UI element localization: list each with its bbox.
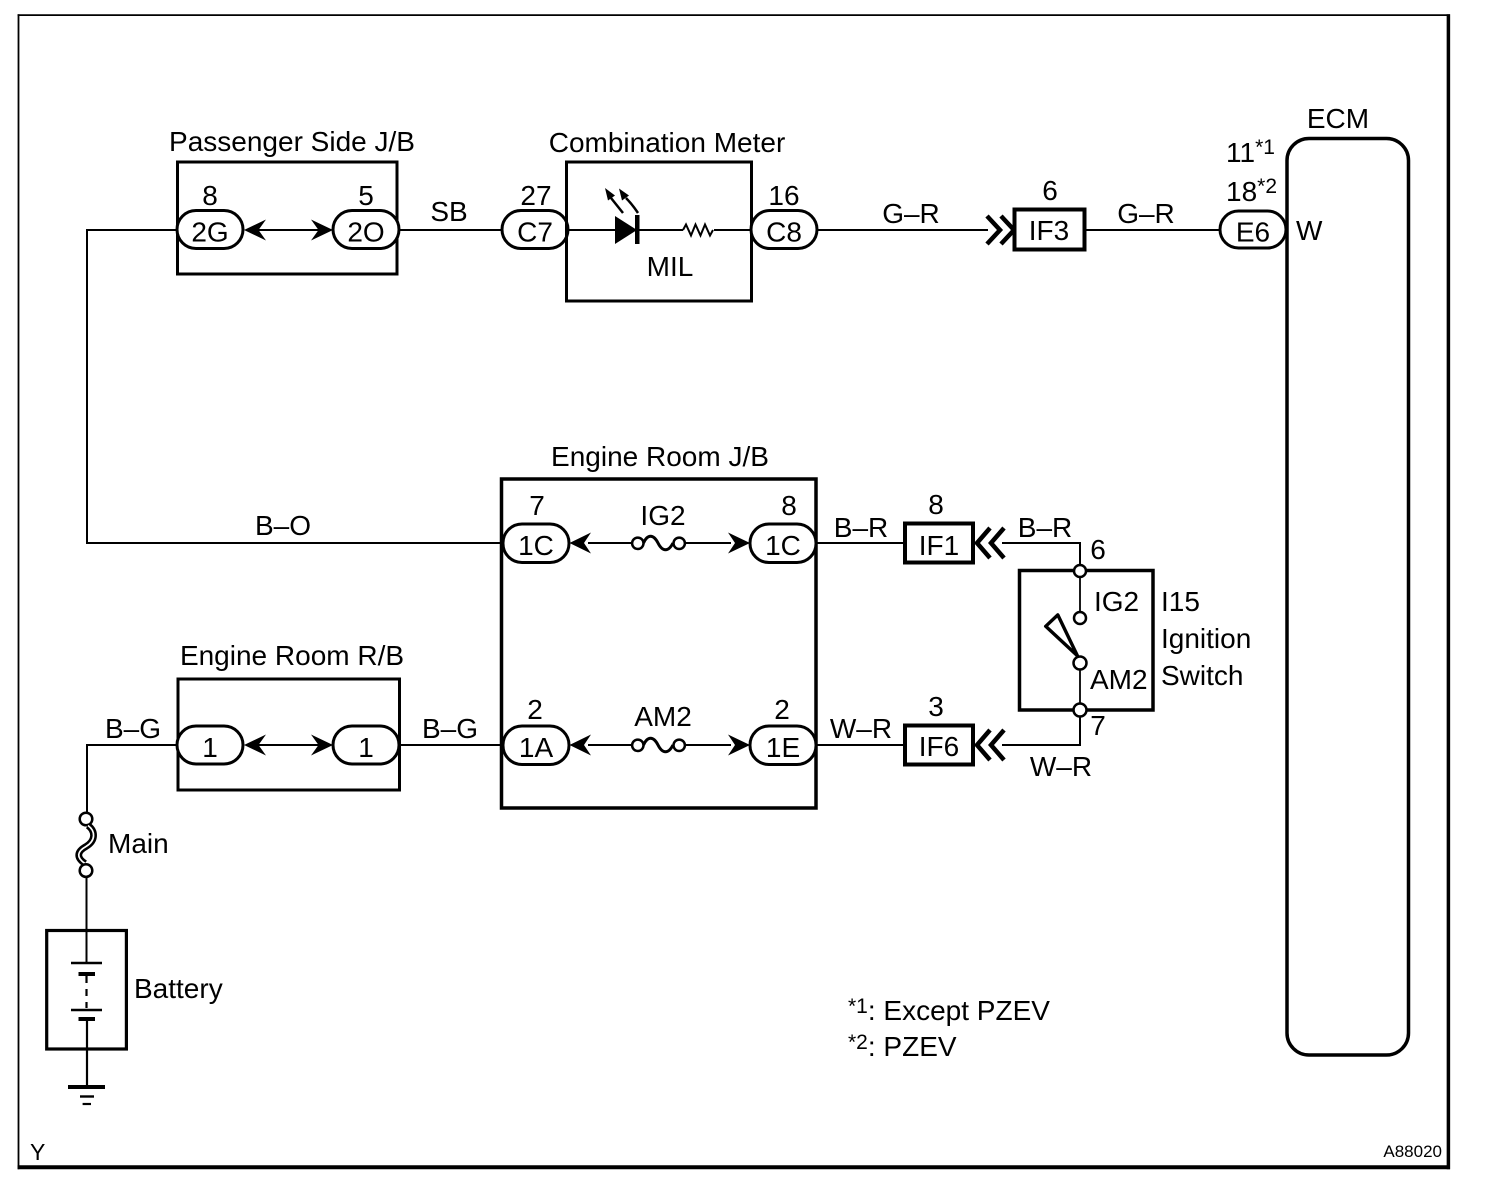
svg-text:AM2: AM2 <box>1090 664 1148 695</box>
border frame left <box>18 14 20 1169</box>
wire 1C to IF1 <box>816 542 907 544</box>
wire chevrons to terminal 7 <box>1002 717 1080 745</box>
connector C8 <box>751 211 817 249</box>
junction IF1 <box>905 524 973 563</box>
svg-text:6: 6 <box>1090 534 1106 565</box>
svg-text:Ignition: Ignition <box>1161 623 1251 654</box>
wire C8 to splice <box>817 229 988 231</box>
svg-text:6: 6 <box>1042 175 1058 206</box>
wire battery to ground <box>86 1021 88 1086</box>
Engine Room R/B box <box>178 679 400 790</box>
svg-text:Engine Room J/B: Engine Room J/B <box>551 441 769 472</box>
svg-text:G–R: G–R <box>1117 198 1175 229</box>
svg-text:Combination Meter: Combination Meter <box>549 127 786 158</box>
svg-text:Battery: Battery <box>134 973 223 1004</box>
wire R/B to 1A <box>399 744 504 746</box>
wire B-G to R/B <box>87 744 180 746</box>
svg-text:A88020: A88020 <box>1383 1142 1442 1161</box>
svg-text:IF3: IF3 <box>1029 215 1069 246</box>
svg-text:Switch: Switch <box>1161 660 1243 691</box>
svg-text:8: 8 <box>928 489 944 520</box>
fusible link Main <box>79 813 94 877</box>
LED emission arrow 2 head <box>619 189 629 201</box>
svg-text:2: 2 <box>774 694 790 725</box>
wire 2O to C7 <box>399 229 504 231</box>
contact IG2 circle <box>1074 612 1086 624</box>
svg-text:G–R: G–R <box>882 198 940 229</box>
wire C7 to LED <box>566 229 616 231</box>
border frame right <box>1447 14 1451 1169</box>
connector 1A <box>503 726 569 765</box>
battery plate long bottom <box>71 1009 102 1011</box>
svg-text:2: 2 <box>527 694 543 725</box>
LED emission arrow 2 shaft <box>626 198 638 213</box>
LED emission arrow 1 shaft <box>611 198 623 213</box>
svg-text:IF6: IF6 <box>919 731 959 762</box>
connector C7 <box>502 211 568 249</box>
border frame top <box>18 14 1450 16</box>
wire resistor to C8 <box>714 229 752 231</box>
terminal 7 circle <box>1074 704 1087 717</box>
splice chevron 2 toward IF1 <box>991 528 1004 558</box>
ground symbol <box>68 1087 105 1104</box>
svg-text:C8: C8 <box>766 217 802 248</box>
svg-text:W–R: W–R <box>1030 751 1092 782</box>
svg-text:W–R: W–R <box>830 713 892 744</box>
svg-text:7: 7 <box>529 490 545 521</box>
svg-text:Main: Main <box>108 828 169 859</box>
arrowhead toward 1 left <box>244 735 266 756</box>
junction IF6 <box>905 726 973 765</box>
wire AM2 contact to terminal 7 <box>1079 670 1081 704</box>
arrowhead toward 1 right <box>311 735 333 756</box>
battery plate short top <box>79 972 96 976</box>
svg-text:*1: Except PZEV: *1: Except PZEV <box>848 995 1050 1026</box>
wire arrow to fuse IG2 <box>588 542 633 544</box>
battery plate short bottom <box>79 1017 96 1021</box>
LED cathode bar <box>635 215 640 244</box>
splice chevron 1 toward IF1 <box>977 528 990 558</box>
Passenger Side J/B box <box>178 162 398 274</box>
connector E6 <box>1220 211 1286 248</box>
svg-text:3: 3 <box>928 691 944 722</box>
splice chevron 2 toward IF6 <box>991 730 1004 760</box>
arrowhead toward 1C right <box>728 533 750 554</box>
svg-text:8: 8 <box>781 490 797 521</box>
svg-text:SB: SB <box>430 196 467 227</box>
connector 2G <box>177 211 243 249</box>
wire between R/B connectors <box>246 744 331 746</box>
svg-text:AM2: AM2 <box>634 701 692 732</box>
svg-text:B–R: B–R <box>1018 512 1072 543</box>
svg-text:1E: 1E <box>766 732 800 763</box>
svg-text:B–G: B–G <box>422 713 478 744</box>
connector 1E <box>750 726 816 765</box>
wire between 2G and 2O <box>246 229 331 231</box>
connector 2O <box>333 211 399 249</box>
resistor in meter <box>683 225 713 236</box>
wire IF3 to E6 <box>1085 229 1222 231</box>
LED emission arrow 1 head <box>605 188 615 201</box>
svg-text:1C: 1C <box>518 530 554 561</box>
svg-text:IG2: IG2 <box>1094 586 1139 617</box>
svg-text:2G: 2G <box>191 217 228 248</box>
svg-text:E6: E6 <box>1236 217 1270 248</box>
svg-text:IF1: IF1 <box>919 530 959 561</box>
wire LED to resistor <box>639 229 683 231</box>
contact AM2 circle <box>1074 657 1087 670</box>
Battery box <box>47 931 127 1050</box>
wire fuse to arrow right <box>685 744 731 746</box>
border frame bottom <box>18 1165 1450 1169</box>
splice chevron 2 toward IF3 <box>1001 216 1014 244</box>
svg-text:2O: 2O <box>347 217 384 248</box>
svg-text:1C: 1C <box>765 530 801 561</box>
ECM box <box>1287 139 1409 1056</box>
wire arrow to fuse AM2 <box>588 744 633 746</box>
svg-text:Passenger Side J/B: Passenger Side J/B <box>169 126 415 157</box>
wire terminal 6 to IG2 contact <box>1079 577 1081 612</box>
connector 1 right <box>333 726 399 764</box>
wire 1E to IF6 <box>816 744 907 746</box>
svg-text:27: 27 <box>520 180 551 211</box>
wire from left vertical to 2G <box>87 229 180 231</box>
svg-text:B–G: B–G <box>105 713 161 744</box>
splice chevron 1 toward IF6 <box>977 730 990 760</box>
junction IF3 <box>1015 210 1085 250</box>
arrowhead toward 1A <box>570 735 592 756</box>
battery plate long top <box>71 962 102 964</box>
terminal 6 circle <box>1074 565 1086 577</box>
LED MIL diode triangle <box>615 216 637 244</box>
svg-text:I15: I15 <box>1161 586 1200 617</box>
svg-text:IG2: IG2 <box>640 500 685 531</box>
wire B-O row <box>86 542 504 544</box>
svg-text:1A: 1A <box>519 732 554 763</box>
svg-text:Y: Y <box>30 1139 45 1165</box>
svg-text:Engine Room R/B: Engine Room R/B <box>180 640 404 671</box>
svg-text:MIL: MIL <box>647 251 694 282</box>
svg-text:16: 16 <box>768 180 799 211</box>
svg-text:5: 5 <box>358 180 374 211</box>
svg-text:ECM: ECM <box>1307 103 1369 134</box>
arrowhead toward 1E <box>728 735 750 756</box>
svg-text:8: 8 <box>202 180 218 211</box>
arrowhead toward 2O <box>311 220 333 241</box>
wire R/B down to Main link <box>86 744 88 813</box>
svg-text:B–O: B–O <box>255 510 311 541</box>
svg-text:7: 7 <box>1090 710 1106 741</box>
wire Main to battery <box>86 877 88 963</box>
svg-text:1: 1 <box>358 732 374 763</box>
arrowhead toward 1C left <box>570 533 592 554</box>
wire left vertical B-O riser <box>86 229 88 544</box>
wire fuse to arrow <box>685 542 731 544</box>
ignition switch I15 box <box>1020 571 1154 711</box>
connector 1 left <box>177 726 243 764</box>
connector 1C right <box>750 524 816 563</box>
battery dashed axis <box>85 976 87 1008</box>
svg-text:1: 1 <box>202 732 218 763</box>
Engine Room J/B box <box>502 479 817 808</box>
svg-text:W: W <box>1296 215 1323 246</box>
splice chevron 1 toward IF3 <box>987 216 1000 244</box>
fuse AM2 <box>632 738 685 752</box>
Combination Meter box <box>567 162 752 301</box>
wire chevrons to ignition switch corner <box>1002 543 1080 565</box>
svg-text:C7: C7 <box>517 217 553 248</box>
switch lever <box>1046 615 1078 656</box>
fuse IG2 <box>632 536 685 550</box>
connector 1C left <box>503 524 569 563</box>
arrowhead toward 2G <box>244 220 266 241</box>
svg-text:B–R: B–R <box>834 512 888 543</box>
